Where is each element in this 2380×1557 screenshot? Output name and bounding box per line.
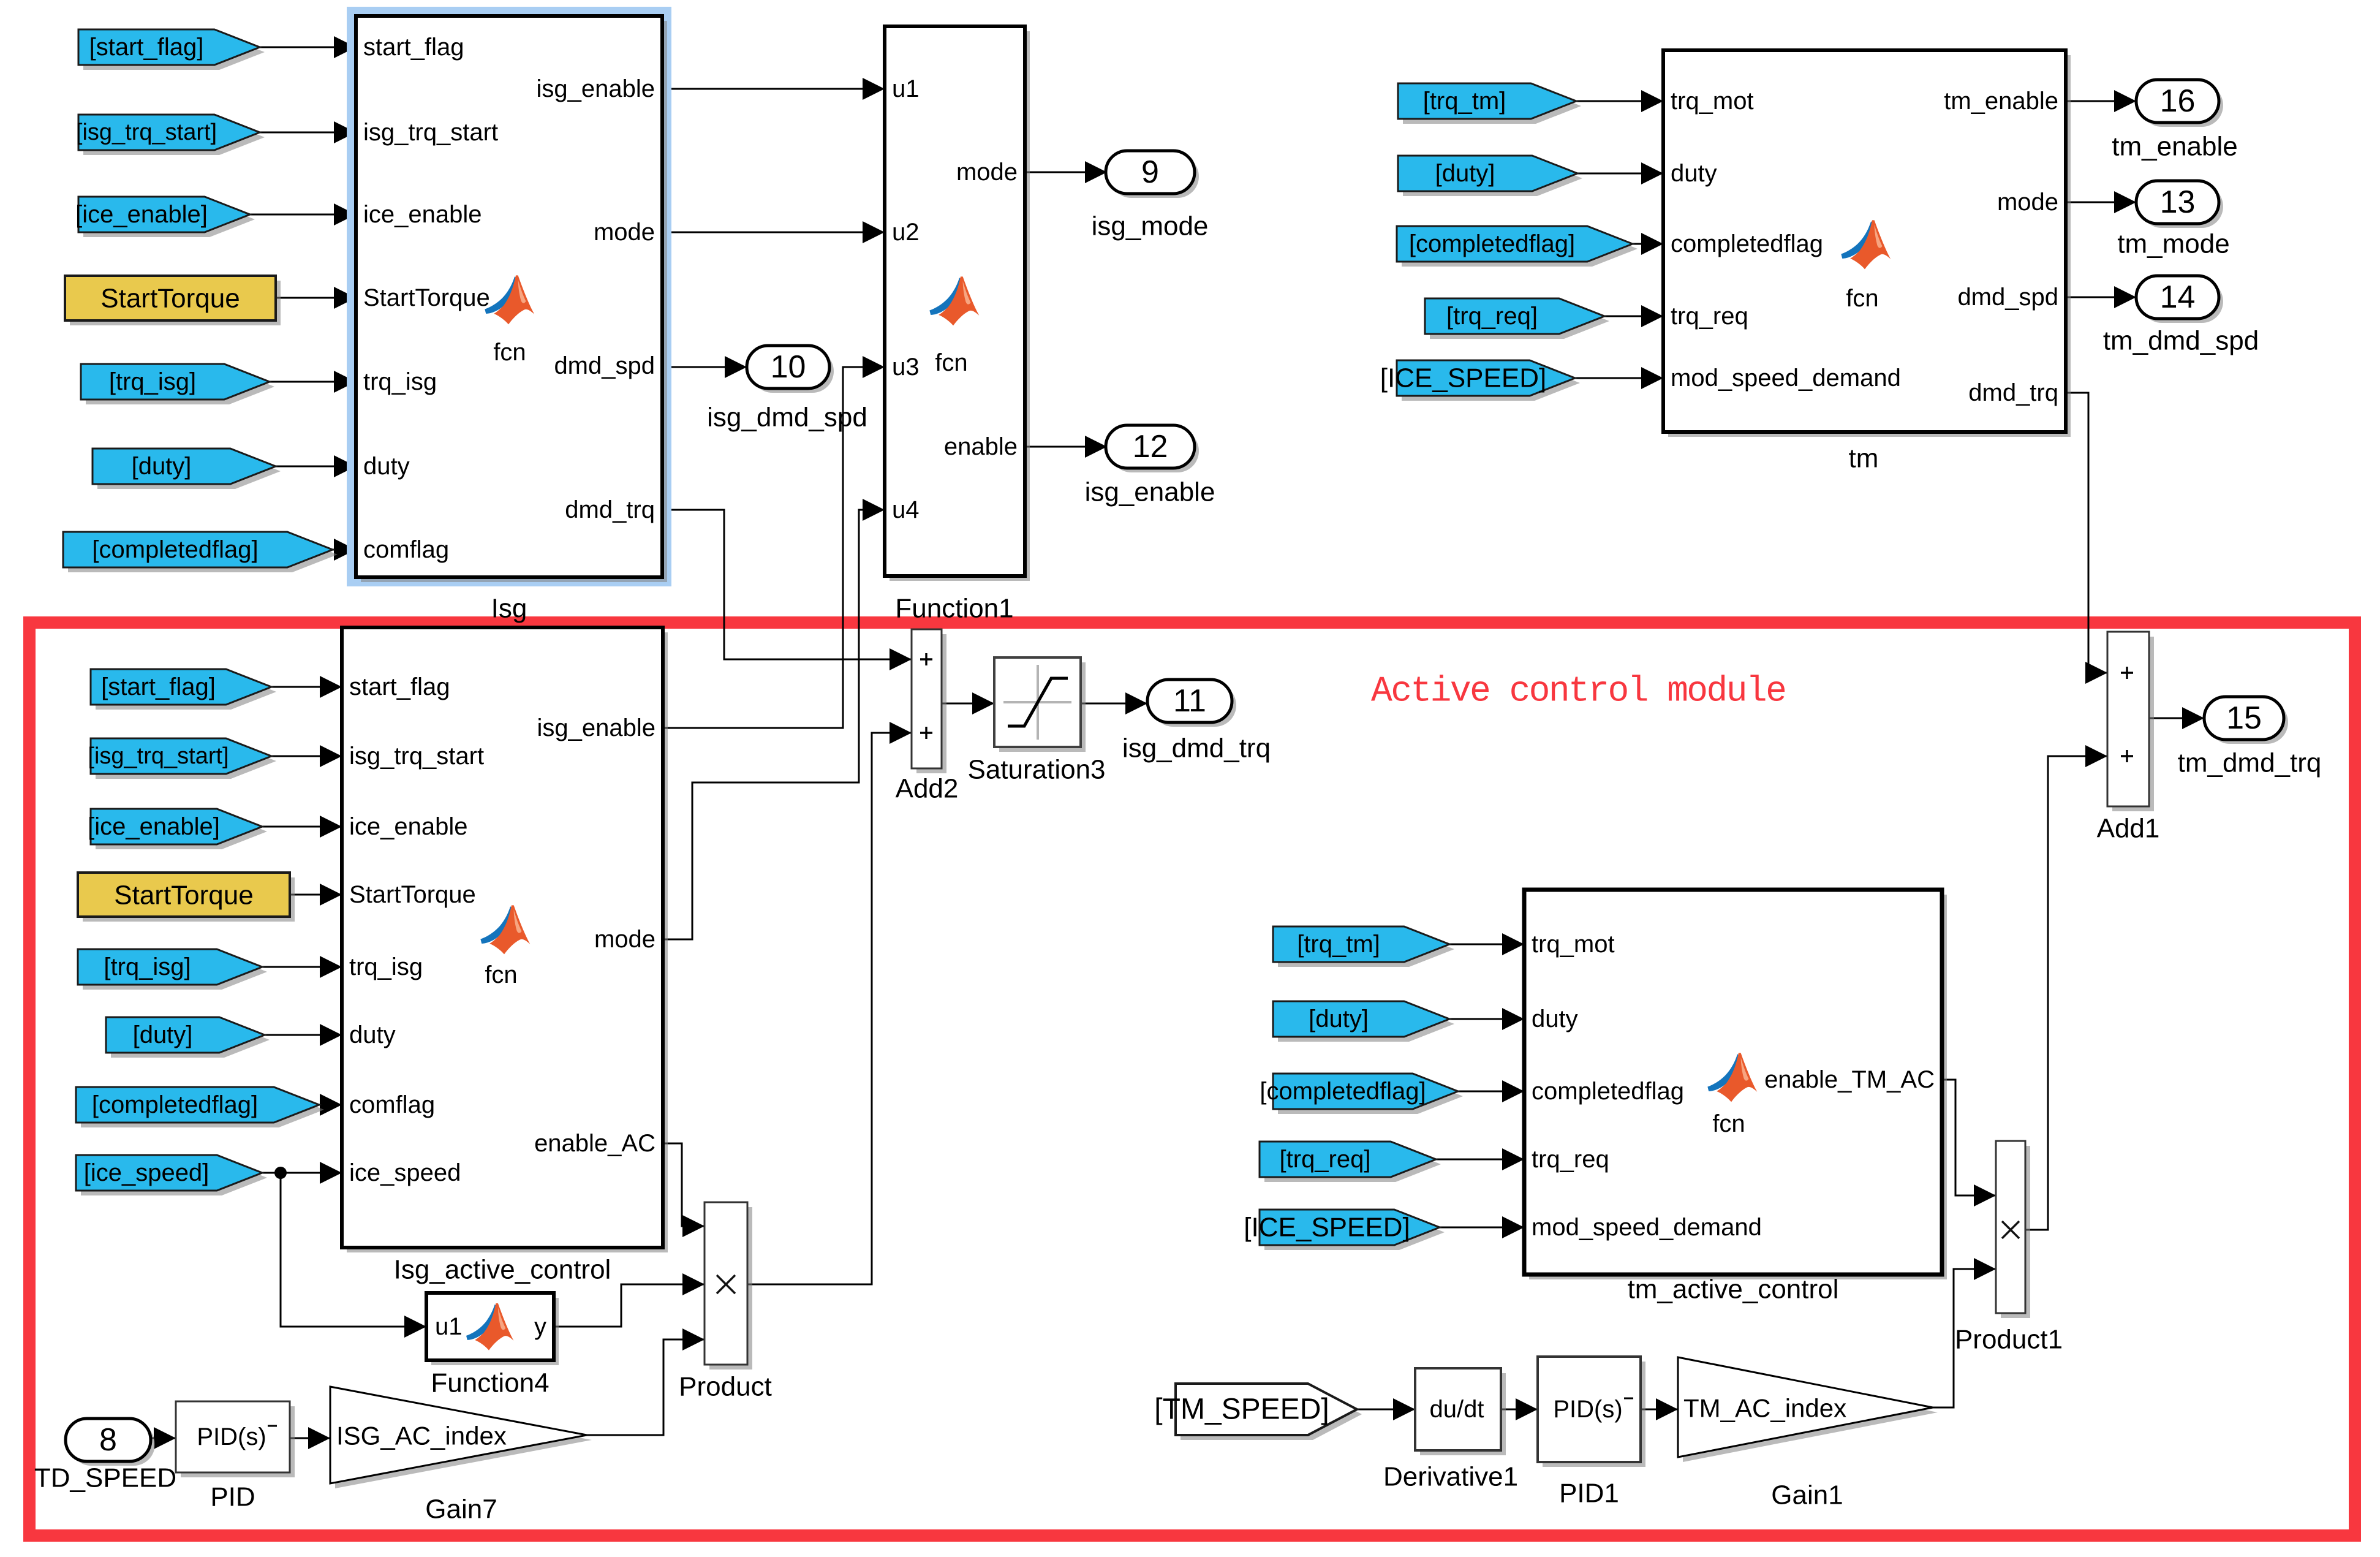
svg-text:ice_speed: ice_speed [349,1159,461,1186]
from tag [trq_isg] [81,364,274,404]
svg-text:PID(s): PID(s) [1553,1396,1622,1423]
svg-text:trq_mot: trq_mot [1532,931,1615,958]
svg-text:[trq_req]: [trq_req] [1280,1146,1371,1173]
svg-text:fcn: fcn [493,339,526,366]
svg-text:[ice_enable]: [ice_enable] [88,813,220,840]
fcn icon inside tm [1841,220,1891,269]
wire Isg_active_control.enable_AC to Product input 1 [663,1143,705,1237]
wire Product to Add2 input 2 [747,722,912,1284]
from tag [completedflag] lower right [1260,1074,1463,1114]
svg-text:[trq_tm]: [trq_tm] [1423,88,1506,115]
fcn icon inside Function4 [466,1303,513,1351]
from tag [isg_trq_start] [76,115,265,155]
outport 16 [2136,80,2223,127]
tm_active_control port labels [1532,931,1762,1241]
outport 14 [2136,276,2223,323]
svg-text:[duty]: [duty] [132,453,192,480]
wire Isg.dmd_trq to Add2 input 1 [662,510,912,670]
svg-text:TM_AC_index: TM_AC_index [1683,1394,1846,1423]
svg-text:PID: PID [210,1482,255,1512]
from tag [ICE_SPEED] top right [1380,360,1580,401]
outport 9 [1106,151,1199,198]
svg-text:tm_mode: tm_mode [2117,229,2229,259]
svg-text:9: 9 [1141,154,1159,190]
svg-text:tm_active_control: tm_active_control [1628,1275,1839,1305]
PID controller PID [176,1401,295,1477]
svg-text:StartTorque: StartTorque [100,284,240,314]
from tag [start_flag] lower [91,669,276,710]
svg-text:fcn: fcn [935,349,967,376]
subsystem Isg_active_control [342,627,668,1252]
wire duty to Isg [276,455,356,477]
svg-text:Derivative1: Derivative1 [1383,1462,1518,1492]
svg-text:completedflag: completedflag [1671,230,1823,257]
wire ICE_SPEED to tm_active_control [1440,1216,1524,1238]
fcn icon inside Isg_active_control [480,905,530,954]
svg-text:Active control module: Active control module [1371,672,1785,712]
derivative Derivative1 [1415,1368,1506,1455]
svg-text:comflag: comflag [349,1091,435,1118]
svg-text:ISG_AC_index: ISG_AC_index [336,1422,507,1450]
product Product1 [1996,1141,2030,1318]
wire duty to Isg_active_control [265,1024,342,1046]
from tag [TM_SPEED] [1154,1384,1362,1440]
svg-text:[ice_enable]: [ice_enable] [75,201,208,228]
wire port 8 to PID [151,1427,176,1449]
from tag [ice_enable] lower [88,809,267,849]
svg-text:comflag: comflag [363,536,449,563]
wire Product1 to Add1 input 2 [2025,745,2107,1230]
outport 11 [1147,680,1236,727]
svg-text:[trq_tm]: [trq_tm] [1297,931,1380,958]
svg-text:[completedflag]: [completedflag] [92,536,258,563]
wire isg_trq_start to Isg [260,121,356,143]
wire trq_req to tm_active_control [1436,1148,1524,1170]
sum Add2 [912,629,946,773]
from tag [trq_req] top right [1425,298,1609,339]
MATLAB function block tm [1663,50,2071,437]
wire Add2 to Saturation3 [942,692,994,714]
svg-text:StartTorque: StartTorque [114,881,253,911]
svg-text:start_flag: start_flag [349,673,450,700]
svg-text:[trq_req]: [trq_req] [1446,303,1538,330]
svg-text:PID(s): PID(s) [197,1423,266,1450]
wire Function4.y to Product input 2 [554,1273,705,1327]
svg-text:mode: mode [956,159,1018,186]
wire trq_isg to Isg [270,371,356,393]
wire PID1 to Gain1 [1641,1398,1678,1420]
constant StartTorque lower [78,873,295,922]
fcn icon inside Isg [485,275,534,324]
svg-text:[trq_isg]: [trq_isg] [104,953,191,980]
svg-text:[start_flag]: [start_flag] [89,34,204,61]
svg-text:duty: duty [1532,1006,1578,1032]
from tag [completedflag] top right [1397,226,1638,267]
red frame: Active control module boundary [29,623,2355,1536]
from tag [ice_enable] [75,197,255,237]
Isg port labels [363,34,655,563]
svg-text:mode: mode [594,219,655,246]
svg-text:Isg: Isg [491,594,527,624]
wire Isg_active_control.isg_enable to Function1.u3 [663,356,885,728]
wire Isg_active_control.mode to Function1.u4 [663,499,885,939]
svg-text:15: 15 [2226,700,2262,736]
MATLAB function block Function1 [885,26,1030,581]
wire Derivative1 to PID1 [1501,1398,1538,1420]
wire StartTorque to Isg_active_control [290,884,342,906]
svg-text:Add2: Add2 [896,774,959,804]
svg-text:[isg_trq_start]: [isg_trq_start] [88,743,229,769]
svg-text:fcn: fcn [1846,285,1878,312]
wire start_flag to Isg [260,36,356,58]
from tag [start_flag] [78,29,265,70]
wire isg_trq_start to Isg_active_control [271,745,342,767]
svg-text:isg_trq_start: isg_trq_start [363,119,498,146]
svg-text:[start_flag]: [start_flag] [101,673,216,700]
wire Function1.mode to port 9 [1025,161,1107,183]
product Product [705,1202,752,1369]
from tag [isg_trq_start] lower [88,738,276,779]
wire TM_SPEED to Derivative1 [1357,1398,1415,1420]
svg-text:8: 8 [99,1422,117,1458]
wire Isg.mode to Function1.u2 [662,221,885,243]
wire start_flag to Isg_active_control [271,676,342,698]
fcn icon inside Function1 [929,276,979,325]
from tag [duty] lower [106,1017,270,1058]
svg-text:trq_mot: trq_mot [1671,88,1754,115]
wire Function1.enable to port 12 [1025,436,1107,458]
svg-text:isg_trq_start: isg_trq_start [349,743,484,770]
svg-text:isg_dmd_trq: isg_dmd_trq [1122,733,1271,763]
svg-text:mod_speed_demand: mod_speed_demand [1532,1214,1762,1241]
svg-text:[ice_speed]: [ice_speed] [84,1159,210,1186]
svg-text:dmd_spd: dmd_spd [1957,284,2058,311]
svg-text:13: 13 [2160,184,2196,220]
from tag [ICE_SPEED] lower right [1244,1210,1445,1250]
svg-text:mode: mode [594,926,655,953]
svg-text:u3: u3 [892,354,920,381]
outport 12 [1106,425,1199,472]
wire ice_enable to Isg_active_control [262,816,342,838]
svg-text:12: 12 [1133,429,1168,464]
Function1 port labels [892,75,1018,523]
wire Gain1 to Product1 input 2 [1933,1258,1996,1407]
PID1 PID(s) overline mark [1624,1398,1633,1400]
svg-text:du/dt: du/dt [1430,1396,1484,1423]
wire StartTorque to Isg [276,287,356,309]
gain Gain7 [330,1387,592,1488]
svg-text:[completedflag]: [completedflag] [1409,230,1575,257]
svg-text:11: 11 [1173,683,1206,719]
svg-text:isg_enable: isg_enable [1085,477,1215,507]
constant StartTorque [65,276,281,325]
from tag [trq_req] lower right [1260,1142,1441,1182]
wire Isg.dmd_spd to port 10 [662,356,747,378]
svg-text:Saturation3: Saturation3 [967,755,1105,785]
svg-text:ice_enable: ice_enable [363,201,482,228]
from tag [trq_isg] lower [78,949,267,990]
svg-text:Gain7: Gain7 [425,1494,497,1525]
svg-text:enable_AC: enable_AC [534,1130,655,1157]
wire tm.dmd_spd to port 14 [2066,286,2136,308]
svg-text:[completedflag]: [completedflag] [92,1091,258,1118]
svg-text:Isg_active_control: Isg_active_control [394,1255,611,1285]
svg-text:isg_enable: isg_enable [537,75,655,102]
svg-text:trq_isg: trq_isg [349,953,423,980]
svg-text:StartTorque: StartTorque [349,881,476,908]
svg-text:u1: u1 [435,1313,463,1340]
wire trq_req to tm [1604,305,1663,327]
MATLAB function block Function4 [426,1293,559,1365]
from tag [completedflag] [63,532,338,572]
wire completedflag to tm_active_control [1458,1080,1524,1102]
wire Add1 to port 15 [2149,707,2204,729]
svg-text:trq_req: trq_req [1532,1146,1609,1173]
sum Add1 [2107,632,2154,811]
MATLAB function block tm_active_control [1524,890,1947,1279]
inport 8 [66,1419,155,1466]
svg-text:Function4: Function4 [431,1368,549,1398]
from tag [completedflag] lower [76,1087,324,1127]
svg-text:duty: duty [349,1021,396,1048]
svg-text:tm_dmd_spd: tm_dmd_spd [2103,326,2259,356]
svg-text:duty: duty [363,453,410,480]
svg-text:[duty]: [duty] [133,1021,193,1048]
svg-text:dmd_spd: dmd_spd [554,352,655,379]
svg-text:[duty]: [duty] [1309,1006,1369,1032]
svg-text:Gain1: Gain1 [1771,1480,1843,1510]
svg-text:mode: mode [1997,189,2058,216]
outport 10 [747,346,834,393]
svg-text:[duty]: [duty] [1435,160,1495,187]
wire trq_tm to tm [1576,90,1663,112]
selection halo around Isg [347,7,671,586]
junction node on ice_speed wire [274,1167,287,1179]
wire ice_enable to Isg [250,203,356,225]
from tag [ice_speed] lower [76,1155,267,1195]
wire tm.tm_enable to port 16 [2066,90,2136,112]
from tag [duty] [93,449,281,489]
svg-text:Product: Product [679,1372,772,1402]
svg-text:tm: tm [1849,444,1879,474]
svg-text:[ICE_SPEED]: [ICE_SPEED] [1380,363,1546,393]
Isg_active_control port labels [349,673,655,1186]
svg-text:isg_enable: isg_enable [537,714,656,741]
wire Saturation3 to port 11 [1081,692,1147,714]
svg-text:mod_speed_demand: mod_speed_demand [1671,365,1901,392]
wire duty to tm [1577,162,1663,184]
svg-text:ice_enable: ice_enable [349,813,468,840]
svg-text:trq_isg: trq_isg [363,368,437,395]
svg-text:u2: u2 [892,219,920,246]
gain Gain1 [1678,1357,1938,1462]
wire ice_speed branch to Function4.u1 [281,1173,426,1338]
svg-text:dmd_trq: dmd_trq [1968,379,2058,406]
svg-text:PID1: PID1 [1559,1479,1619,1509]
wire Isg.isg_enable to Function1.u1 [662,78,885,100]
saturation Saturation3 [994,657,1086,752]
wire tm.mode to port 13 [2066,191,2136,213]
svg-text:trq_req: trq_req [1671,303,1748,330]
svg-text:start_flag: start_flag [363,34,464,61]
tm port labels [1671,88,2058,406]
wire trq_tm to tm_active_control [1449,933,1524,955]
from tag [trq_tm] lower [1273,926,1454,967]
PID(s) overline mark [268,1425,277,1427]
svg-text:[isg_trq_start]: [isg_trq_start] [76,119,217,145]
wire completedflag to tm [1633,233,1663,255]
wire duty to tm_active_control [1449,1008,1524,1030]
svg-text:fcn: fcn [1712,1110,1745,1137]
svg-text:tm_dmd_trq: tm_dmd_trq [2178,748,2322,778]
svg-text:enable_TM_AC: enable_TM_AC [1764,1066,1935,1093]
from tag [trq_tm] top [1398,83,1581,124]
svg-text:10: 10 [771,349,806,385]
svg-text:StartTorque: StartTorque [363,284,490,311]
svg-text:16: 16 [2160,83,2196,119]
svg-text:Function1: Function1 [895,594,1013,624]
wire PID to Gain7 [290,1427,330,1449]
svg-text:Product1: Product1 [1955,1325,2063,1355]
subsystem Isg [356,16,667,582]
wire trq_isg to Isg_active_control [262,956,342,978]
svg-text:[ICE_SPEED]: [ICE_SPEED] [1244,1213,1410,1243]
svg-text:completedflag: completedflag [1532,1078,1684,1105]
svg-text:14: 14 [2160,279,2196,315]
svg-text:tm_enable: tm_enable [1944,88,2058,115]
svg-text:duty: duty [1671,160,1717,187]
from tag [duty] top right [1398,156,1582,196]
wire completedflag to Isg_active_control [319,1094,342,1116]
wire ICE_SPEED to tm [1575,367,1663,389]
wire enable_TM_AC to Product1 input 1 [1942,1080,1996,1207]
svg-text:tm_enable: tm_enable [2112,132,2237,162]
fcn icon inside tm_active_control [1707,1053,1757,1102]
outport 13 [2136,181,2223,228]
svg-text:enable: enable [944,433,1018,460]
svg-text:[TM_SPEED]: [TM_SPEED] [1154,1393,1329,1426]
svg-text:TD_SPEED: TD_SPEED [34,1463,176,1493]
svg-text:Add1: Add1 [2097,814,2160,844]
svg-text:dmd_trq: dmd_trq [565,496,655,523]
outport 15 [2204,697,2288,744]
svg-text:y: y [534,1313,546,1340]
svg-text:[trq_isg]: [trq_isg] [109,368,196,395]
wire ice_speed to Isg_active_control [262,1162,342,1184]
svg-text:isg_mode: isg_mode [1092,211,1209,241]
wire completedflag to Isg [333,539,356,561]
from tag [duty] lower right [1273,1001,1454,1042]
PID controller PID1 [1538,1357,1645,1467]
wire Gain7 to Product input 3 [587,1328,705,1435]
svg-text:u1: u1 [892,75,920,102]
svg-text:fcn: fcn [485,961,517,988]
svg-text:u4: u4 [892,496,920,523]
wire tm.dmd_trq to Add1 input 1 [2066,393,2107,684]
svg-text:[completedflag]: [completedflag] [1260,1078,1426,1105]
